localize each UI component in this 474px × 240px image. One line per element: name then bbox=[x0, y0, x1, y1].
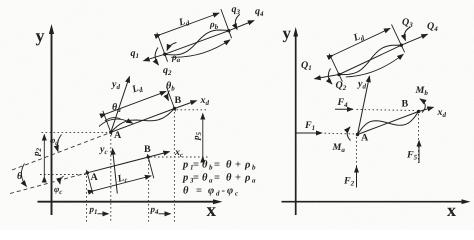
node A dot (middle-right) bbox=[356, 133, 359, 136]
dashed chord-d extension ray bbox=[12, 132, 111, 170]
local axis x_d (middle-left) bbox=[175, 101, 197, 109]
force F1 arrow bbox=[295, 132, 322, 134]
dimension line Lc (element c) bbox=[94, 176, 151, 191]
angle theta arc (far left) bbox=[21, 164, 26, 187]
moment M_a arc bbox=[347, 127, 350, 141]
force q1 arrow bbox=[144, 54, 165, 61]
rotation arc (top-right beam) bbox=[346, 54, 404, 77]
dashed chord-c extension ray bbox=[10, 173, 87, 194]
node dot left end (top-left beam) bbox=[163, 53, 166, 56]
node B dot (middle-right) bbox=[417, 110, 420, 113]
x-axis (left diagram) bbox=[38, 201, 217, 203]
beam element d chord (middle-left) bbox=[111, 109, 175, 133]
node A dot (element c) bbox=[86, 171, 89, 174]
dotted horizontal through A (middle) bbox=[42, 131, 111, 133]
force F2 arrow bbox=[356, 167, 358, 188]
dimension p5 (vertical displacement of B) bbox=[202, 114, 204, 157]
beam chord (top-right, Q-forces) bbox=[339, 45, 401, 74]
angle arc phi_d bbox=[57, 135, 61, 152]
y-axis (right diagram) bbox=[295, 33, 297, 215]
dotted horizontal from B (middle) right bbox=[177, 109, 208, 111]
end tick right (top-left beam) bbox=[221, 9, 232, 38]
node dot left (top-right beam) bbox=[337, 73, 340, 76]
rotation arc rho_b (top-left beam) bbox=[171, 40, 230, 57]
dotted vertical through B (middle) bbox=[173, 112, 175, 222]
y-axis (left diagram) bbox=[51, 30, 53, 215]
dimension line Ld (middle-left beam) bbox=[106, 91, 166, 113]
local axis x_d (middle-right) bbox=[419, 107, 434, 111]
angle arc theta_a (small) bbox=[105, 118, 121, 121]
dimension line Ld (top-right beam) bbox=[333, 28, 390, 55]
node B dot (middle-left beam) bbox=[173, 107, 176, 110]
node B dot (element c) bbox=[147, 155, 150, 158]
dotted vertical below A (right) bbox=[356, 137, 358, 188]
dimension line Ld (top-left beam) bbox=[161, 13, 219, 34]
rotation arrow rho_a (top-left beam) bbox=[167, 43, 177, 51]
end tick at B (middle-left beam) bbox=[167, 87, 176, 111]
dotted vertical through A (middle) bbox=[110, 135, 112, 222]
local axis y_c (element c) bbox=[113, 149, 118, 194]
node A dot (middle-left beam) bbox=[109, 131, 112, 134]
moment Q2 arc bbox=[328, 69, 332, 85]
beam element chord (top-left, q-forces) bbox=[165, 31, 229, 55]
dotted line F4 to B bbox=[357, 110, 417, 111]
local axis y_d (middle-right) bbox=[358, 76, 370, 135]
force F5 arrow bbox=[418, 141, 420, 164]
deformed wave (middle-right beam) bbox=[358, 112, 419, 135]
angle hook theta_b bbox=[167, 91, 169, 101]
deformed shape wave (top-left beam) bbox=[165, 30, 229, 55]
end tick at A (element c) bbox=[87, 170, 93, 194]
deformed wave (middle-left beam) bbox=[111, 109, 175, 133]
force Q1 arrow bbox=[315, 75, 340, 79]
moment q2 arc bbox=[155, 48, 158, 66]
end tick at A (middle-left beam) bbox=[103, 111, 112, 135]
beam element c chord with x_c arrow bbox=[87, 152, 169, 173]
dotted horizontal from B (element c) right bbox=[150, 156, 208, 158]
moment Q3 arc bbox=[404, 27, 410, 41]
angle arc phi_c bbox=[60, 176, 64, 184]
end tick left (top-right beam) bbox=[329, 54, 342, 82]
end tick right (top-right beam) bbox=[392, 24, 405, 52]
end tick left (top-left beam) bbox=[157, 33, 168, 62]
dimension p4 arrow bbox=[159, 213, 171, 215]
x-axis (right diagram) bbox=[282, 201, 465, 203]
dimension p1 arrow bbox=[98, 213, 109, 215]
dimension p2 (vertical displacement of A) bbox=[43, 135, 45, 177]
dotted vertical below B (right) bbox=[418, 114, 420, 163]
force F4 arrow bbox=[335, 108, 353, 110]
deformed wave (top-right beam) bbox=[339, 45, 401, 75]
dotted horizontal through A (element c) bbox=[40, 174, 87, 176]
node dot right (top-right beam) bbox=[400, 44, 403, 47]
force Q4 arrow bbox=[401, 34, 427, 45]
local axis y_d (middle-left) bbox=[111, 77, 130, 133]
moment q3 arc bbox=[235, 14, 240, 29]
dotted vertical through B (element c) bbox=[148, 160, 150, 222]
dotted line F1 to A bbox=[325, 132, 356, 135]
beam chord (middle-right) bbox=[358, 112, 419, 135]
moment M_b arc bbox=[420, 99, 425, 113]
angle arc theta_a (big) bbox=[99, 119, 133, 126]
node dot right end (top-left beam) bbox=[227, 29, 230, 32]
dotted vertical through A (element c) bbox=[86, 176, 88, 222]
force q4 arrow bbox=[229, 21, 254, 31]
end tick at B (element c) bbox=[147, 154, 153, 178]
